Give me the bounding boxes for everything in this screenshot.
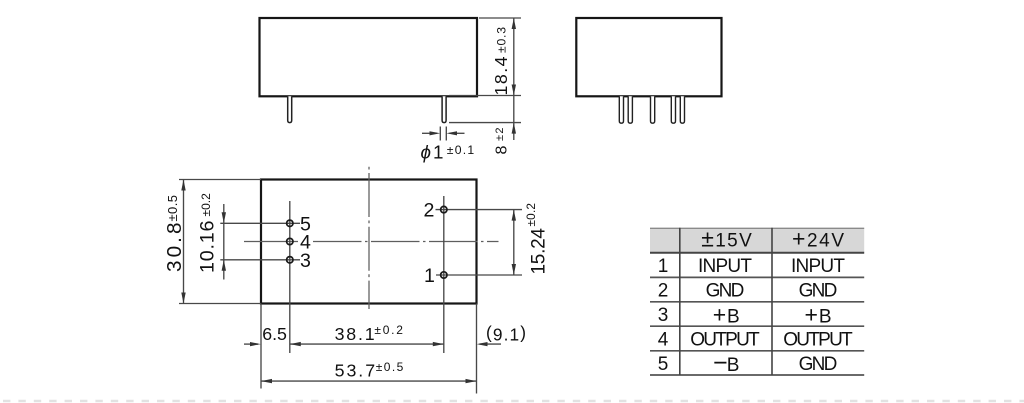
svg-text:+B: +B (805, 301, 832, 327)
table bottom rule (650, 374, 864, 376)
svg-text:4: 4 (658, 329, 669, 350)
svg-text:18.4: 18.4 (491, 56, 511, 95)
bottom ext line right edge (476, 304, 478, 394)
table column rule 2 (771, 228, 773, 375)
end view body (576, 18, 721, 96)
bottom view body (261, 180, 477, 304)
svg-text:GND: GND (799, 354, 838, 375)
svg-text:−B: −B (713, 349, 740, 377)
bottom ext line left edge (260, 304, 262, 389)
extension line pin bottom of 8 dim (449, 122, 521, 124)
30.8 bottom extension line (179, 303, 261, 305)
left pin column extension line (289, 201, 291, 353)
53.7 right arrow (466, 379, 477, 383)
table row rule 2 (650, 301, 864, 303)
svg-text:1: 1 (658, 256, 669, 277)
15.24 arrow down (512, 264, 516, 275)
svg-text:38.1: 38.1 (335, 324, 375, 344)
pin 2 circle (441, 206, 447, 212)
svg-text:OUTPUT: OUTPUT (783, 329, 853, 350)
svg-text:1: 1 (424, 265, 435, 287)
svg-text:GND: GND (799, 280, 838, 301)
pin 4 circle (287, 238, 293, 244)
pin3 leader line (220, 259, 300, 261)
phi1 left tick (439, 127, 441, 141)
30.8 dimension line (183, 180, 185, 304)
38.1 dimension line (290, 343, 444, 345)
svg-text:5: 5 (658, 354, 669, 375)
svg-text:3: 3 (658, 305, 669, 326)
svg-text:±0.5: ±0.5 (376, 360, 404, 374)
38.1 left arrow (290, 342, 301, 346)
end view pin 5 (680, 96, 684, 123)
30.8 arrow down (181, 293, 185, 304)
phi1 right tick (445, 127, 447, 141)
phi1 right arrow (446, 131, 464, 135)
svg-text:±0.5: ±0.5 (165, 195, 180, 222)
footer dashed rule (3, 400, 1024, 402)
15.24 arrow up (512, 210, 516, 221)
svg-text:±0.2: ±0.2 (524, 203, 538, 227)
front view left pin (288, 96, 292, 122)
svg-text:30.8: 30.8 (163, 223, 186, 273)
10.16 arrow down (tip at pin5 line) (222, 212, 226, 223)
dim text 8 +-2 (494, 128, 511, 155)
pin 5 circle (287, 220, 293, 226)
svg-text:±0.1: ±0.1 (447, 143, 475, 157)
svg-text:ϕ1: ϕ1 (421, 142, 444, 163)
svg-text:6.5: 6.5 (262, 324, 287, 344)
dimension line 18.4 and 8 (513, 18, 515, 140)
vertical centerline (368, 167, 370, 309)
svg-text:±0.2: ±0.2 (199, 193, 213, 217)
53.7 left arrow (261, 379, 272, 383)
table header top rule (650, 227, 864, 229)
9.1 outside arrow head (477, 342, 488, 346)
table row rule 4 (650, 350, 864, 352)
svg-text:10.16: 10.16 (196, 220, 218, 273)
dim text 10.16 +-0.2 (196, 193, 218, 273)
30.8 arrow up (181, 180, 185, 191)
pin5 leader line (220, 222, 300, 224)
svg-text:+B: +B (713, 301, 740, 327)
svg-text:±0.2: ±0.2 (374, 323, 403, 337)
pin 1 circle (441, 272, 447, 278)
svg-text:53.7: 53.7 (335, 361, 376, 381)
table row rule 1 (650, 276, 864, 278)
pin2 leader line (436, 209, 523, 211)
front view right pin (442, 96, 446, 122)
38.1 right arrow (433, 342, 444, 346)
arrow up at top of 18.4 (512, 18, 516, 29)
svg-text:±2: ±2 (494, 128, 506, 142)
svg-text:3: 3 (300, 250, 311, 272)
svg-text:(9.1): (9.1) (486, 323, 526, 345)
svg-text:8: 8 (494, 146, 511, 155)
front view body (260, 18, 478, 96)
svg-text:2: 2 (424, 200, 435, 222)
svg-text:INPUT: INPUT (791, 256, 845, 277)
dim text 18.4 +-0.3 (491, 27, 511, 96)
10.16 dimension line (223, 204, 225, 280)
dim text 30.8 +-0.5 (163, 195, 186, 272)
horizontal centerline left of label 4 (244, 241, 300, 243)
table header bottom rule (650, 252, 864, 254)
svg-text:15.24: 15.24 (528, 228, 549, 275)
53.7 dimension line (261, 380, 477, 382)
svg-text:2: 2 (658, 280, 669, 301)
end view pin 2 (628, 96, 632, 123)
arrow up at pin bottom (outside) (512, 123, 516, 134)
svg-text:INPUT: INPUT (698, 256, 752, 277)
10.16 arrow up (tip at pin3 line) (222, 260, 226, 271)
table row rule 3 (650, 325, 864, 327)
6.5 outside arrow head (250, 342, 261, 346)
svg-text:GND: GND (706, 280, 745, 301)
table column rule 1 (679, 228, 681, 375)
phi1 left arrow (422, 131, 440, 135)
phi1 value text (421, 142, 475, 163)
15.24 dimension line (513, 210, 515, 275)
dim text 15.24 +-0.2 (524, 203, 549, 275)
end view pin 1 (619, 96, 623, 123)
end view pin 3 (651, 96, 655, 123)
end view pin 4 (671, 96, 675, 123)
right pin column extension line (443, 196, 445, 353)
pin 3 circle (287, 257, 293, 263)
arrow down at body bottom (512, 85, 516, 96)
9.1 outside arrow line (480, 343, 502, 345)
horizontal centerline right of label 4 (313, 241, 499, 243)
6.5 outside arrow line (244, 343, 258, 345)
extension line body bottom of 18.4 dim (449, 95, 521, 97)
svg-text:±0.3: ±0.3 (495, 27, 509, 53)
30.8 top extension line (179, 179, 261, 181)
svg-text:OUTPUT: OUTPUT (690, 329, 760, 350)
pin1 leader line (436, 274, 522, 276)
extension line top of 18.4 dim (479, 17, 521, 19)
table header fill (650, 228, 864, 253)
